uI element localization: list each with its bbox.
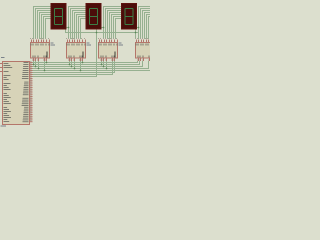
pin numbers top of U5 (135, 38, 148, 39)
wire display common rail (66, 32, 139, 34)
digit 8 segments of DISP3 (125, 9, 133, 25)
pins bottom of U4 (102, 58, 115, 61)
pin names bottom row inside U4 (101, 56, 115, 58)
pins bottom of U2 (34, 58, 47, 61)
pin numbers top of U3 (66, 38, 85, 39)
wire data bus line 8 (33, 76, 97, 78)
graphic bar inside U3 (83, 52, 84, 58)
wire riser bus1 to U5 pin (137, 61, 139, 63)
wire DISP1 common pin drop (65, 29, 67, 33)
wire taps U4 data pins to bus with junctions (101, 61, 108, 69)
pin names bottom row inside U2 (33, 56, 47, 58)
wire riser bus4 to U5 pin (148, 61, 150, 69)
7-segment display DISP2 body (86, 4, 101, 30)
IC U5 decoder body (136, 43, 155, 59)
wire data bus line 4 (33, 68, 149, 70)
graphic bar inside U4 (115, 52, 116, 58)
7-segment display DISP3 body (122, 4, 137, 30)
pin numbers bottom of U3 (68, 60, 82, 61)
pin names bottom row inside U3 (69, 56, 83, 58)
IC U4 decoder body (99, 43, 118, 59)
wire riser bus6 to U4 pin (114, 61, 116, 73)
wire DISP3 right pin (137, 27, 140, 29)
wire data bus line 2 (33, 64, 140, 66)
7-segment display DISP1 body (51, 4, 66, 30)
pins right side of U1 (30, 63, 33, 122)
wire data bus line 6 (33, 72, 115, 74)
pin numbers top of U4 (98, 38, 117, 39)
wire data bus line 5 (33, 70, 151, 72)
pin numbers bottom of U5 (137, 60, 149, 61)
IC U3 decoder body (67, 43, 86, 59)
pins left side of U1 (0, 64, 3, 72)
graphic bar inside U5 (152, 52, 153, 58)
label U1 value (1, 126, 7, 127)
pins top of U3 (68, 40, 86, 43)
pin names top row inside U5 (136, 44, 149, 46)
label U3 reference and value (87, 43, 92, 46)
wire riser bus7 to U4 pin (112, 61, 114, 75)
wire data bus line 7 (33, 74, 113, 76)
pins bottom of U5 (139, 58, 150, 61)
wire fan of segment nets for display 1 (34, 7, 52, 40)
wire DISP2 common vertical to bus (96, 33, 98, 78)
pin names top row inside U4 (99, 44, 118, 46)
node junction fan2 line1 (68, 27, 70, 29)
wire riser bus2 to U5 pin (139, 61, 141, 65)
pin numbers top of U2 (30, 38, 49, 39)
wire taps U3 data pins to bus with junctions (69, 61, 84, 71)
node junction DISP3 common (135, 32, 137, 34)
pin names bottom row inside U5 (138, 56, 150, 58)
wire fan of segment nets for display 2 (69, 7, 87, 40)
node junction fan4 line1 (138, 27, 140, 29)
pins bottom of U3 (70, 58, 83, 61)
wire data bus line 3 (33, 66, 143, 68)
wire DISP1 right pin (66, 27, 69, 29)
wire DISP3 common pin drop (135, 29, 137, 33)
wire DISP3 common vertical (135, 33, 137, 40)
wire fan of segment nets for display 3 (104, 7, 122, 40)
pin names left column inside U1 (4, 63, 13, 122)
wire data bus line 1 (33, 62, 138, 64)
pin numbers bottom of U4 (100, 60, 114, 61)
pin names top row inside U2 (31, 44, 50, 46)
node junction DISP2 common (96, 32, 98, 34)
digit 8 segments of DISP1 (55, 9, 63, 25)
pin numbers bottom of U2 (32, 60, 46, 61)
pins top of U4 (100, 40, 118, 43)
node junction fan3 line1 (103, 27, 105, 29)
wire DISP2 right pin (101, 27, 104, 29)
pins top of U2 (32, 40, 50, 43)
label U1 reference (1, 57, 5, 58)
pin names top row inside U3 (67, 44, 86, 46)
pin numbers right side of U1 (30, 61, 31, 121)
label U2 reference and value (51, 43, 56, 46)
graphic bar inside U2 (47, 52, 48, 58)
wire fan of segment nets for display 4 (139, 7, 151, 40)
microcontroller U1 body (3, 62, 30, 125)
IC U2 decoder body (31, 43, 50, 59)
wire taps U2 data pins to bus with junctions (33, 61, 48, 71)
schematic background (0, 0, 150, 150)
label U4 reference and value (119, 43, 124, 46)
wire DISP2 common pin drop (96, 29, 98, 33)
digit 8 segments of DISP2 (90, 9, 98, 25)
wire riser bus3 to U5 pin (142, 61, 144, 67)
pins top of U5 (137, 40, 149, 43)
pin names right column inside U1 (22, 62, 29, 122)
